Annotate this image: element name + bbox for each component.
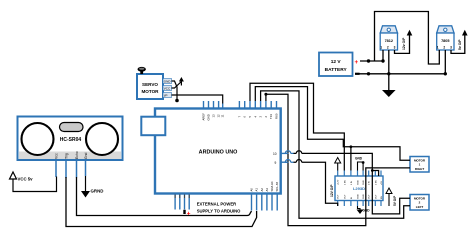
svg-text:12V O/P: 12V O/P <box>330 184 334 197</box>
svg-text:GND: GND <box>355 157 363 161</box>
svg-text:EXTERNAL POWER: EXTERNAL POWER <box>197 202 236 207</box>
regulator U3 7805 <box>437 26 454 50</box>
HC-SR04 right transducer <box>86 123 118 155</box>
wire arduino pin2 around bottom up through driver to motor right input2 <box>266 94 410 225</box>
SERVO-GROUP <box>137 67 223 104</box>
top pin 4 <box>254 101 256 109</box>
node plus-7812 junction <box>381 59 384 62</box>
svg-text:RIGHT: RIGHT <box>415 167 425 171</box>
wire hop pin10 over loop <box>285 151 290 154</box>
L293D bottom pins <box>338 201 381 207</box>
svg-text:L293D: L293D <box>353 186 365 191</box>
5V supply arrow for servo <box>179 77 184 82</box>
pin Echo <box>76 160 78 178</box>
svg-text:Gnd: Gnd <box>84 152 88 159</box>
wire battery plus row <box>360 60 383 62</box>
5V O/P arrow into L293D pin16 <box>386 188 397 206</box>
top pin 3 <box>260 101 262 109</box>
arduino uno board body <box>155 109 281 194</box>
svg-text:GND: GND <box>358 180 360 185</box>
svg-text:5V O/P: 5V O/P <box>393 195 397 206</box>
svg-text:VCC: VCC <box>164 86 171 90</box>
bottom-right pin labels <box>250 181 280 191</box>
svg-text:ARDUINO UNO: ARDUINO UNO <box>199 150 238 156</box>
external power minus mark <box>183 210 185 214</box>
wire Trig to Arduino A1 <box>66 177 257 227</box>
ultrasonic sensor HC-SR04 body <box>18 117 123 161</box>
bottom-right pin A2 <box>261 194 263 211</box>
top pin 5 <box>249 101 251 109</box>
svg-text:11: 11 <box>221 114 225 117</box>
bottom-left pin Vin <box>184 194 186 210</box>
node pin2 corner dot <box>264 93 267 96</box>
svg-text:GND: GND <box>164 79 172 83</box>
top pin TX1 <box>270 101 272 109</box>
HC-SR04 crystal <box>60 123 84 132</box>
svg-text:Vcc: Vcc <box>55 153 59 159</box>
wire battery minus row <box>359 73 446 75</box>
wire 7812 pin1 input <box>382 50 384 61</box>
svg-text:GND: GND <box>358 194 360 199</box>
5v output arrow of 7805 <box>451 30 468 54</box>
top pin AREF <box>203 101 205 109</box>
motor M2 left box <box>410 195 429 211</box>
arduino usb connector <box>141 117 165 136</box>
svg-text:A2: A2 <box>260 188 264 192</box>
bottom-left pin 5V <box>188 194 190 210</box>
svg-text:2 EN: 2 EN <box>375 180 377 185</box>
servo pin tag I/P <box>163 93 172 98</box>
bottom-left pin top ticks <box>175 195 189 199</box>
SENSOR-GROUP <box>10 117 257 227</box>
svg-text:Echo: Echo <box>75 151 79 159</box>
svg-text:1 IN: 1 IN <box>351 181 353 185</box>
bottom-left pin GND2 <box>179 194 181 210</box>
svg-text:MOTOR: MOTOR <box>141 89 159 94</box>
wire branch to L293D top pin3 <box>350 147 352 171</box>
regulator U2 7812 <box>380 26 397 50</box>
wire 7805 pin2 to minus row <box>444 50 446 74</box>
svg-text:A3: A3 <box>265 188 269 192</box>
wire servo VCC to 5V arrow <box>172 82 182 89</box>
motor M1 right box <box>410 157 429 173</box>
svg-text:SUPPLY TO ARDUINO: SUPPLY TO ARDUINO <box>197 209 241 214</box>
svg-text:SERVO: SERVO <box>142 82 158 87</box>
svg-text:+12V: +12V <box>338 179 340 185</box>
svg-text:2 IN: 2 IN <box>369 181 371 185</box>
L293D top pins <box>338 171 381 177</box>
svg-text:SCL.A5: SCL.A5 <box>275 181 279 191</box>
top pin 7 <box>238 101 240 109</box>
motor driver U4 L293D body <box>335 176 383 201</box>
ground symbol for supply <box>382 74 396 97</box>
svg-text:Trig: Trig <box>65 153 69 159</box>
svg-text:9: 9 <box>275 161 277 165</box>
svg-text:HC-SR04: HC-SR04 <box>60 137 82 143</box>
right edge pin 9 <box>281 161 289 163</box>
svg-text:10: 10 <box>273 152 277 156</box>
bottom-right pin A1 <box>256 194 258 211</box>
servo motor body <box>137 74 163 99</box>
ARDUINO-GROUP <box>141 101 288 218</box>
svg-text:RX0: RX0 <box>275 113 279 119</box>
svg-text:EN: EN <box>381 196 383 199</box>
VCC 5v supply arrow <box>10 172 34 182</box>
svg-text:7812: 7812 <box>385 39 393 43</box>
wire branch to L293D top pin8 <box>372 171 378 177</box>
servo shaft <box>138 67 146 74</box>
12V O/P arrow into L293D pin1 <box>330 158 341 198</box>
bottom-left pin GND1 <box>174 194 176 210</box>
svg-text:OUT: OUT <box>375 194 377 199</box>
svg-text:BATTERY: BATTERY <box>325 67 348 73</box>
node plus row dot <box>367 59 370 62</box>
top pin 2 <box>265 101 267 109</box>
top-left pin labels <box>202 113 225 121</box>
wire VCC5v to Vcc pin <box>13 177 57 192</box>
svg-text:+5V: +5V <box>381 181 383 185</box>
wire arduino pin10 stub (blue) <box>285 152 293 154</box>
bottom-right pin A0 <box>251 194 253 211</box>
servo pin tag VCC <box>163 86 172 91</box>
svg-text:GRND: GRND <box>91 189 104 194</box>
svg-text:VCC 5v: VCC 5v <box>18 177 34 182</box>
top pin 12 <box>218 101 220 109</box>
svg-text:AREF: AREF <box>202 113 206 121</box>
svg-text:GND: GND <box>207 114 211 120</box>
HC-SR04 left transducer <box>22 123 54 155</box>
svg-text:TX1: TX1 <box>269 113 273 119</box>
svg-text:A1: A1 <box>255 188 259 192</box>
svg-text:GND: GND <box>363 194 365 199</box>
battery minus terminal <box>355 73 360 75</box>
svg-text:+: + <box>187 211 191 218</box>
node branch pin8 dot <box>371 169 374 172</box>
wire arduino pin3 to motor left input2 (around bottom) <box>261 91 410 218</box>
wire plus to 7805 input over the top <box>375 12 440 65</box>
svg-text:A0: A0 <box>250 188 254 192</box>
svg-text:I/P: I/P <box>164 93 168 97</box>
right edge pin 10 <box>281 152 289 154</box>
top-right pin labels <box>237 113 278 119</box>
L293D bottom pin labels <box>338 194 383 199</box>
wire hop pin9 over pin3 loop <box>296 159 301 162</box>
L293D bottom GND arrow <box>357 206 371 214</box>
svg-text:OUT: OUT <box>344 194 346 199</box>
wire servo GND down to node <box>172 81 178 100</box>
battery BT1 12V <box>319 53 360 77</box>
L293D top GND tie <box>355 157 365 171</box>
svg-text:+: + <box>355 59 359 66</box>
bottom-right pin A5 <box>276 194 278 211</box>
DRIVER-GROUP <box>330 157 429 215</box>
wire pin9 to L293D bottom pin1 (around left) <box>294 162 338 206</box>
svg-text:5v O/P: 5v O/P <box>458 39 462 50</box>
pin Trig <box>65 160 67 178</box>
svg-text:OUT: OUT <box>369 194 371 199</box>
top pin RX0 <box>276 101 278 109</box>
svg-text:12 V: 12 V <box>331 59 342 65</box>
ground arrow GRND <box>81 176 103 198</box>
svg-text:LEFT: LEFT <box>416 205 424 209</box>
wire arduino pin9 stub (blue) <box>285 161 293 163</box>
wire hop pin10 over pin3 loop <box>296 151 301 154</box>
svg-text:7805: 7805 <box>441 39 449 43</box>
WIRES-GROUP <box>250 83 410 225</box>
servo pin tag GND <box>163 79 172 84</box>
wire pin10 down through driver to motor left input1 <box>294 153 411 214</box>
top pin GND <box>208 101 210 109</box>
bottom-right pin A4 <box>271 194 273 211</box>
wire arduino pin5 to L293D top pin2 <box>250 83 344 170</box>
svg-text:1 2 3: 1 2 3 <box>380 46 397 50</box>
svg-text:1 EN: 1 EN <box>344 180 346 185</box>
top pin 11 <box>222 104 224 109</box>
L293D top pin labels <box>338 179 383 185</box>
svg-text:1 2 3: 1 2 3 <box>437 46 454 50</box>
node branch dot <box>350 145 353 148</box>
node minus row dot <box>367 72 370 75</box>
wire hop pin9 over loop <box>285 159 290 162</box>
svg-text:13: 13 <box>212 114 216 118</box>
POWER-GROUP <box>319 12 468 98</box>
svg-text:12v O/P: 12v O/P <box>402 37 406 50</box>
wire servo signal to Arduino pin 11 <box>172 95 223 104</box>
wire Echo to Arduino A0 <box>77 177 252 216</box>
node minus-7805 junction <box>444 72 447 75</box>
wire arduino pin4 to motor right input1 <box>255 87 410 161</box>
node servo ground dot <box>175 99 179 103</box>
wire 7812 pin2 to minus row <box>388 50 390 74</box>
pin Gnd <box>85 160 87 176</box>
top pin 6 <box>244 101 246 109</box>
12v output arrow of 7812 <box>395 30 413 54</box>
svg-text:SDA.A4: SDA.A4 <box>270 181 274 191</box>
pin Vcc <box>55 160 57 177</box>
svg-text:OUT: OUT <box>338 194 340 199</box>
svg-text:GND: GND <box>363 180 365 185</box>
node minus-7812 junction <box>387 72 390 75</box>
bottom-right pin A3 <box>266 194 268 211</box>
top pin 13 <box>213 101 215 109</box>
